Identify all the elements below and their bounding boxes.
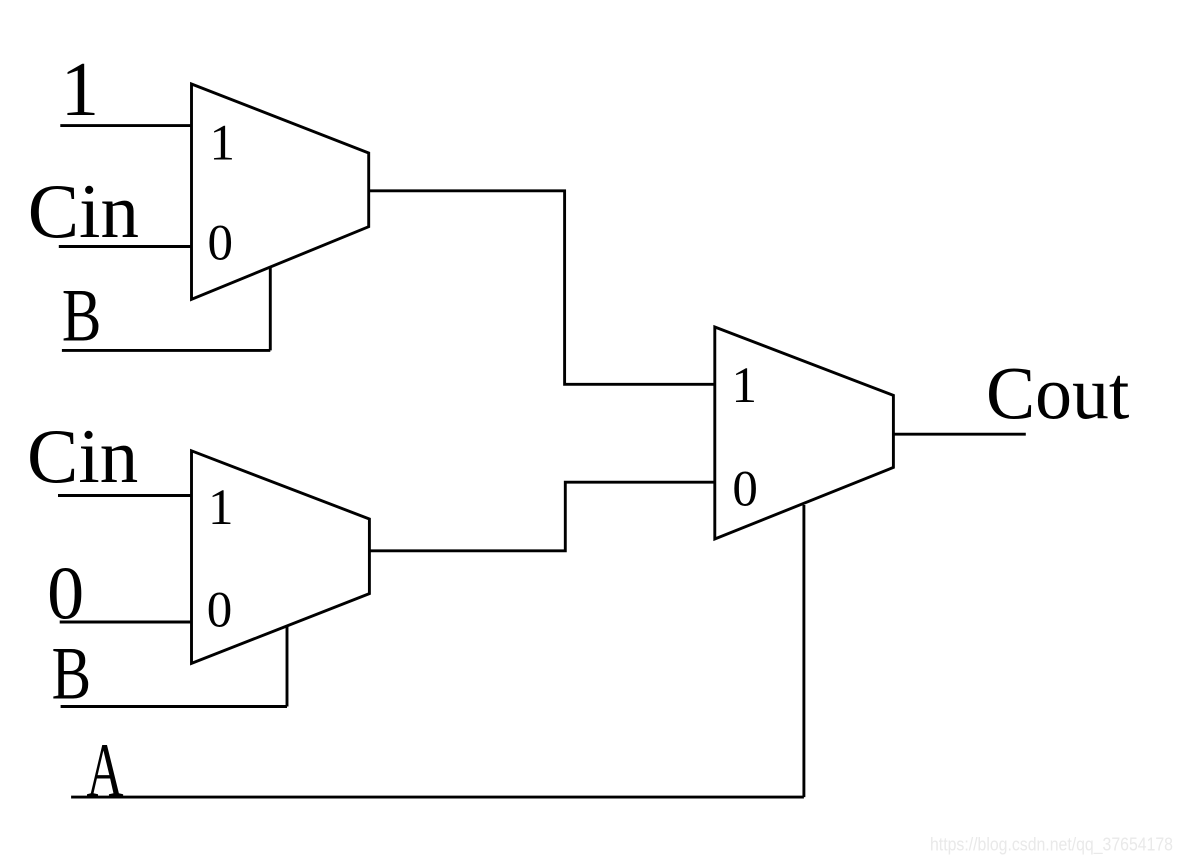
svg-text:Cin: Cin	[28, 168, 139, 254]
wire: B select stub into U2 bottom edge	[286, 625, 289, 707]
svg-text:Cin: Cin	[27, 413, 138, 499]
wire: Cin input to U1 pin 0	[59, 245, 192, 248]
svg-text:1: 1	[208, 480, 234, 536]
svg-text:B: B	[62, 274, 102, 357]
svg-text:https://blog.csdn.net/qq_37654: https://blog.csdn.net/qq_37654178	[930, 835, 1173, 856]
wire: B select of U1 (horizontal run)	[62, 349, 270, 352]
wire: constant-1 input to U1 pin 1	[60, 124, 191, 127]
svg-text:B: B	[52, 632, 92, 715]
wire: U3 output to Cout	[893, 433, 1025, 436]
mux U2 (bottom-left 2:1 multiplexer body)	[192, 451, 370, 664]
svg-text:0: 0	[208, 215, 234, 271]
wire: B select stub into U1 bottom edge	[269, 267, 272, 351]
mux U1 (top-left 2:1 multiplexer body)	[192, 84, 369, 299]
svg-text:1: 1	[61, 46, 100, 132]
wire: Cin input to U2 pin 1	[58, 494, 192, 497]
svg-text:0: 0	[207, 582, 233, 638]
wire: U1 output to U3 pin 1	[369, 191, 715, 384]
wire: B select of U2 (horizontal run)	[61, 705, 287, 708]
svg-text:1: 1	[732, 358, 758, 414]
mux U3 (output 2:1 multiplexer body)	[715, 327, 894, 539]
svg-text:0: 0	[732, 461, 758, 517]
wire: A select stub into U3 bottom edge	[802, 505, 805, 797]
svg-text:A: A	[87, 727, 124, 813]
wire: constant-0 input to U2 pin 0	[60, 621, 192, 624]
svg-text:1: 1	[210, 116, 236, 172]
wire: A select of U3 (horizontal run)	[71, 796, 804, 799]
svg-text:0: 0	[47, 552, 84, 635]
wire: U2 output to U3 pin 0	[369, 482, 714, 551]
svg-text:Cout: Cout	[986, 352, 1130, 435]
